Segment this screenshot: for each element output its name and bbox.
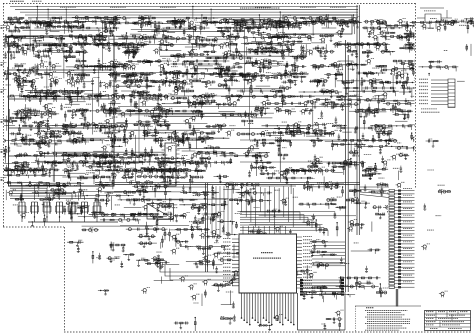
component cluster r9c7 — [212, 270, 242, 305]
component cluster r6c11 — [333, 182, 370, 211]
wire interconnect mesh — [22, 20, 356, 226]
component cluster r4c5 — [144, 118, 196, 157]
IC301 vertical IC — [162, 143, 180, 186]
IC201 bottom pins — [241, 293, 295, 325]
component cluster r7c3 — [89, 212, 144, 224]
component cluster r4c10 — [304, 122, 346, 146]
component cluster r2c9 — [272, 61, 309, 92]
component cluster r5c4 — [118, 153, 172, 183]
component cluster r5c10 — [301, 154, 341, 190]
component cluster r3c10 — [299, 89, 342, 118]
component cluster r1c10 — [300, 34, 335, 59]
component cluster r1c13 — [380, 29, 433, 53]
component cluster r9c10 — [300, 272, 355, 302]
component cluster r4c9 — [262, 122, 315, 155]
component cluster r8c14 — [421, 244, 430, 250]
component cluster r2c10 — [302, 65, 342, 87]
component cluster r6c7 — [211, 182, 251, 207]
component cluster r4c14 — [426, 139, 439, 147]
net label top bus — [60, 6, 346, 9]
component cluster r2c7 — [208, 65, 261, 95]
component cluster r1c9 — [256, 33, 315, 64]
wire vertical bus x206 — [206, 183, 208, 272]
component cluster r2c8 — [233, 59, 286, 95]
component cluster r8c4 — [120, 242, 160, 268]
component cluster r7c12 — [372, 213, 385, 232]
component cluster r6c8 — [237, 183, 272, 208]
wire bus into IC201 top — [241, 186, 296, 227]
component cluster r6c12 — [364, 183, 407, 213]
component cluster r1c5 — [151, 29, 186, 61]
component cluster r7c13 — [392, 210, 421, 243]
component cluster r5c6 — [181, 151, 236, 188]
component cluster r3c7 — [212, 94, 274, 119]
component cluster r3c8 — [237, 90, 285, 119]
component cluster r0c12 — [362, 20, 403, 33]
component cluster r3c9 — [262, 90, 315, 116]
component cluster r7c2 — [68, 212, 99, 232]
component cluster r6c3 — [82, 183, 134, 210]
component cluster r2c3 — [84, 60, 128, 95]
component cluster r6c9 — [275, 185, 298, 206]
component cluster r2c4 — [110, 60, 162, 89]
test point stubs left margin — [0, 1, 42, 181]
component cluster r0c0 — [0, 17, 53, 32]
component cluster r2c13 — [392, 60, 441, 99]
component cluster r3c4 — [120, 90, 172, 124]
component cluster r8c12 — [365, 248, 381, 272]
component cluster r0c4 — [108, 16, 183, 31]
component cluster r1c0 — [0, 30, 56, 60]
wire nested bundle above IC201 — [240, 212, 328, 236]
IF block box — [283, 15, 352, 34]
component cluster r9c4 — [141, 288, 150, 294]
component cluster r10c9 — [274, 315, 283, 321]
component cluster r6c14 — [423, 185, 451, 210]
IC201 right pins — [297, 236, 313, 288]
component cluster r2c2 — [64, 59, 100, 101]
component cluster r3c3 — [80, 91, 135, 117]
component cluster r9c14 — [439, 291, 448, 297]
component cluster r7c5 — [152, 212, 185, 247]
component cluster r5c12 — [362, 155, 391, 180]
component cluster r0c2 — [64, 16, 121, 34]
wire mid horizontal runs — [118, 96, 358, 162]
component cluster r8c6 — [180, 245, 229, 268]
component cluster r7c9 — [274, 226, 297, 240]
wire ladder trunk — [396, 289, 398, 307]
tuner input cluster — [417, 8, 454, 28]
component cluster r0c9 — [268, 15, 318, 29]
component cluster r3c6 — [173, 89, 217, 122]
component cluster r4c0 — [0, 120, 61, 155]
component cluster r2c14 — [419, 60, 465, 86]
component cluster r3c1 — [20, 90, 89, 125]
component cluster r8c5 — [151, 240, 188, 269]
component cluster r10c5 — [174, 322, 189, 329]
component cluster r0c14 — [410, 18, 460, 31]
component cluster r6c2 — [64, 185, 90, 220]
component cluster r10c7 — [220, 301, 236, 324]
component cluster r7c8 — [248, 209, 282, 238]
component cluster r10c10 — [321, 318, 342, 330]
component cluster r8c10 — [306, 240, 341, 279]
component cluster r3c11 — [319, 95, 372, 123]
title block table — [425, 311, 471, 331]
component cluster r8c11 — [340, 243, 372, 264]
wire tuner fanout staircase — [10, 183, 97, 200]
component cluster r3c14 — [425, 90, 443, 111]
component cluster r2c1 — [30, 62, 62, 98]
component cluster r1c11 — [333, 30, 383, 58]
component cluster r4c3 — [92, 118, 127, 152]
IC201 left pins — [223, 238, 239, 285]
component cluster r0c8 — [231, 18, 285, 33]
delay line DL201 — [147, 204, 174, 220]
component cluster r10c6 — [193, 303, 199, 331]
component cluster r1c8 — [232, 32, 294, 65]
wire vertical rails x345 — [346, 40, 349, 292]
component cluster r5c1 — [27, 151, 90, 181]
component cluster r5c11 — [332, 150, 366, 175]
wire vertical bus x357 — [357, 5, 359, 235]
wire top supply bus lines — [10, 7, 358, 18]
wire IC201 bottom frame — [298, 292, 346, 330]
component cluster r0c5 — [154, 18, 209, 36]
component cluster r9c12 — [376, 283, 390, 297]
wire feeds to connector — [360, 187, 389, 198]
component cluster r6c6 — [179, 185, 227, 215]
component cluster r1c15 — [466, 44, 471, 56]
component cluster r3c13 — [383, 92, 436, 120]
component cluster r5c5 — [145, 157, 200, 185]
component cluster r8c9 — [284, 263, 298, 270]
component cluster r1c14 — [444, 49, 448, 51]
connector CN ladder — [388, 188, 417, 308]
component cluster r0c6 — [179, 17, 219, 36]
component cluster r0c1 — [27, 17, 85, 35]
tuner section boxes — [9, 36, 115, 186]
component cluster r6c13 — [396, 182, 412, 204]
wire bus drop lines x212 — [212, 186, 232, 235]
component cluster r4c8 — [236, 120, 284, 155]
component cluster r1c2 — [56, 34, 105, 64]
component cluster r5c9 — [266, 153, 316, 184]
component cluster r7c11 — [333, 212, 364, 237]
component cluster r3c2 — [53, 90, 100, 126]
jumper row block — [300, 279, 344, 296]
component cluster r2c5 — [150, 59, 189, 92]
component cluster r9c11 — [332, 276, 380, 297]
component cluster r0c3 — [80, 15, 130, 36]
component cluster r0c13 — [385, 19, 421, 38]
component cluster r8c8 — [242, 241, 268, 267]
component cluster r7c4 — [126, 212, 168, 240]
component cluster r5c7 — [214, 154, 264, 183]
component cluster r5c8 — [243, 151, 276, 178]
component cluster r0c7 — [201, 18, 274, 33]
component cluster r6c10 — [298, 182, 340, 209]
component cluster r2c12 — [356, 58, 416, 92]
component cluster r9c6 — [179, 276, 211, 306]
component cluster r5c2 — [51, 153, 114, 181]
notes text block — [355, 306, 421, 332]
component cluster r7c7 — [211, 212, 243, 239]
component cluster r3c0 — [7, 94, 59, 131]
component cluster r4c12 — [354, 124, 413, 154]
component cluster r0c15 — [442, 17, 474, 33]
component cluster r7c10 — [303, 214, 328, 234]
tuner coil bank — [18, 202, 118, 222]
IC201 microcomputer body — [239, 234, 297, 293]
component cluster r5c0 — [0, 152, 48, 178]
component cluster r1c12 — [362, 29, 395, 58]
component cluster r3c5 — [149, 88, 202, 122]
component cluster r1c1 — [32, 31, 86, 71]
component cluster r0c11 — [335, 17, 363, 35]
component cluster r9c5 — [154, 277, 174, 284]
component cluster r2c11 — [329, 61, 380, 94]
component cluster r4c1 — [28, 121, 91, 151]
component cluster r10c8 — [258, 324, 272, 331]
component cluster r6c0 — [0, 181, 46, 205]
component cluster r1c4 — [118, 32, 172, 59]
legend pin list — [417, 76, 457, 114]
component cluster r9c9 — [267, 270, 306, 276]
component cluster r6c1 — [32, 182, 85, 207]
component cluster r2c0 — [0, 64, 34, 95]
component cluster r1c6 — [176, 31, 226, 64]
component cluster r0c10 — [291, 15, 355, 35]
wire nested runs to IC201 — [160, 262, 239, 280]
component cluster r4c7 — [217, 124, 236, 136]
component cluster r1c7 — [205, 29, 257, 63]
component cluster r1c3 — [90, 29, 145, 65]
component cluster r7c6 — [175, 212, 221, 241]
component cluster r8c2 — [67, 240, 83, 252]
wire IC201 right fanout — [312, 242, 345, 266]
component cluster r9c3 — [98, 290, 109, 295]
component cluster r7c14 — [427, 216, 441, 230]
component cluster r9c8 — [260, 283, 275, 290]
component cluster r7c1 — [31, 214, 45, 234]
component cluster r4c6 — [172, 118, 230, 151]
wire IC201 top pin stubs — [243, 226, 285, 234]
component cluster r5c3 — [86, 151, 142, 189]
component cluster r8c3 — [92, 242, 126, 264]
component cluster r4c4 — [123, 120, 158, 157]
component cluster r10c11 — [335, 310, 344, 331]
component cluster r4c13 — [395, 121, 435, 151]
wire drops from top bus — [36, 6, 354, 29]
component cluster r6c4 — [118, 181, 170, 211]
component cluster r4c11 — [329, 125, 391, 155]
component cluster r2c6 — [171, 60, 233, 89]
component cluster r5c14 — [427, 169, 434, 171]
component cluster r6c5 — [143, 182, 198, 212]
component cluster r4c2 — [62, 122, 105, 145]
component cluster r3c12 — [349, 90, 415, 130]
component cluster r8c7 — [212, 243, 263, 273]
wire horizontal bus y183 — [95, 182, 360, 184]
component cluster r5c13 — [391, 152, 431, 180]
component cluster r7c0 — [2, 213, 30, 243]
